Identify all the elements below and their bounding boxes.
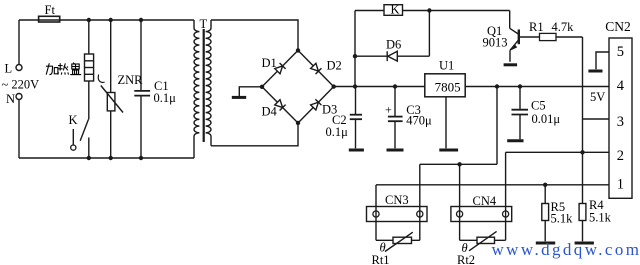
diode D3 <box>311 99 322 110</box>
wire: CN3 right pin drop <box>419 164 421 240</box>
wire: relay top line left <box>355 10 384 12</box>
node: bridge left vertex <box>260 85 264 89</box>
svg-text:0.1μ: 0.1μ <box>326 125 349 139</box>
node: bridge top vertex <box>296 48 300 52</box>
svg-text:0.01μ: 0.01μ <box>532 112 561 126</box>
wire: 5V distribution horizontal <box>420 163 497 165</box>
diode D6 <box>387 51 397 61</box>
svg-text:K: K <box>69 113 78 127</box>
svg-text:L: L <box>5 62 13 76</box>
svg-text:5: 5 <box>617 44 624 60</box>
wire: N terminal drop <box>18 100 20 159</box>
node: rail relay junction <box>353 84 357 88</box>
node CN4 right pin <box>503 211 509 217</box>
wire: Rt1 link <box>376 239 420 241</box>
svg-text:K: K <box>391 3 400 17</box>
node: relay line right junction <box>427 8 431 12</box>
transformer T core <box>203 29 205 142</box>
wire: 5V distribution vertical <box>496 87 498 165</box>
node: top wire C1 junction <box>139 18 143 22</box>
svg-text:5.1k: 5.1k <box>589 211 612 225</box>
wire: D6 line <box>355 55 429 57</box>
svg-text:N: N <box>6 92 15 106</box>
wire: Rt2 link <box>460 239 506 241</box>
regulator U1 box <box>425 74 465 97</box>
svg-text:0.1μ: 0.1μ <box>154 91 177 105</box>
node: top wire heater junction <box>87 18 91 22</box>
switch K button circle <box>71 145 76 150</box>
node: top wire ZNR junction <box>109 18 113 22</box>
ground bar (Q1 emitter) <box>504 63 517 66</box>
svg-text:9013: 9013 <box>483 36 508 50</box>
svg-text:D6: D6 <box>386 38 401 52</box>
ground bar (bridge) <box>232 96 246 99</box>
bridge edge top-right <box>298 50 334 86</box>
svg-text:4.7k: 4.7k <box>552 20 575 34</box>
svg-text:2: 2 <box>617 148 624 164</box>
node: bridge bottom vertex <box>296 121 300 125</box>
capacitor C3 <box>388 87 403 149</box>
node: pin2 control junction <box>580 150 584 154</box>
svg-text:5.1k: 5.1k <box>551 212 574 226</box>
svg-text:www.dgdqw.com: www.dgdqw.com <box>492 240 640 259</box>
node CN3 right pin <box>417 211 423 217</box>
wire: control vertical R1 to R4 <box>582 37 584 204</box>
ground bar (C2) <box>349 149 364 152</box>
wire: U1 ground stub <box>445 97 447 149</box>
wire: CN2 pin2 line <box>506 151 609 153</box>
svg-text:Ft: Ft <box>45 3 56 17</box>
svg-text:ZNR: ZNR <box>118 73 144 87</box>
bridge edge top-left <box>262 50 298 86</box>
svg-text:D2: D2 <box>327 59 342 73</box>
resistor R4 <box>579 204 586 242</box>
transistor Q1 <box>510 11 519 62</box>
resistor R5 <box>542 185 549 242</box>
wire: C1 branch lower <box>140 96 142 158</box>
wire: CN2 pin3 stub <box>583 118 610 120</box>
label 加热盘 (heating plate, drawn strokes) <box>46 63 81 75</box>
svg-text:+: + <box>385 103 392 117</box>
thermistor Rt1 <box>385 232 413 251</box>
wire: ZNR branch <box>110 20 112 158</box>
diode D1 <box>275 63 286 74</box>
svg-text:7805: 7805 <box>435 80 461 95</box>
svg-text:5V: 5V <box>590 90 605 104</box>
ground bar (C3) <box>387 149 404 152</box>
transformer T secondary <box>206 20 211 146</box>
wire: bottom horizontal (neutral) <box>19 157 194 159</box>
wire: bridge left vertex to ground <box>239 87 262 96</box>
diode D4 <box>275 100 286 111</box>
wire: CN3 left pin drop <box>375 185 377 241</box>
switch K button stub <box>72 129 74 145</box>
node CN3 left pin <box>373 211 379 217</box>
wire: Q1 base to R1 <box>520 36 540 38</box>
svg-text:D1: D1 <box>262 56 277 70</box>
ground bar (pin5) <box>588 70 602 73</box>
wire: CN4 right pin drop <box>505 152 507 240</box>
svg-text:D4: D4 <box>262 105 278 119</box>
wire: heater branch upper <box>88 20 90 54</box>
node N terminal circle <box>16 94 22 100</box>
wire: CN2 pin1 line <box>376 184 609 186</box>
relay coil K box <box>384 5 403 16</box>
connector CN4 box <box>451 207 512 222</box>
capacitor C1 <box>134 91 150 96</box>
varistor ZNR <box>98 75 123 113</box>
ground bar (C5) <box>507 139 523 142</box>
ground bar (R4) <box>575 242 594 245</box>
ground bar (U1) <box>439 149 458 152</box>
connector CN2 box <box>609 38 632 198</box>
node: 5V rail C5 junction <box>518 84 522 88</box>
svg-text:470μ: 470μ <box>406 113 432 127</box>
diode D2 <box>311 63 322 74</box>
node CN4 left pin <box>457 211 463 217</box>
wire: +9V rail bridge to U1 <box>334 86 425 88</box>
wire: secondary top lead <box>211 20 298 50</box>
transformer T primary <box>194 20 199 158</box>
wire: C1 branch upper <box>140 20 142 91</box>
svg-text:4: 4 <box>617 78 625 94</box>
fuse Ft <box>39 16 60 22</box>
svg-text:CN4: CN4 <box>473 194 497 208</box>
svg-text:~ 220V: ~ 220V <box>2 78 40 92</box>
svg-text:CN2: CN2 <box>605 19 631 34</box>
bridge edge bottom-right <box>298 87 334 123</box>
wire: D6 right vertical <box>428 11 430 57</box>
svg-text:R1: R1 <box>529 20 544 34</box>
wire: 5V rail U1 to CN2 pin4 <box>465 86 609 88</box>
node: bridge right vertex <box>332 84 336 88</box>
wire: CN4 left pin drop <box>459 164 461 240</box>
wire: relay branch vertical <box>354 11 356 87</box>
wire: mains top horizontal <box>19 19 194 21</box>
svg-text:1: 1 <box>617 177 624 193</box>
switch K blade <box>80 120 88 141</box>
wire: switch bottom terminal <box>88 138 90 159</box>
node: 5V rail sensor-supply junction <box>495 84 499 88</box>
wire: relay top line right <box>403 10 510 12</box>
resistor R1 <box>540 33 557 40</box>
node: bottom wire ZNR junction <box>109 156 113 160</box>
wire: R1 to vertical <box>556 36 583 38</box>
node: bottom wire C1 junction <box>139 156 143 160</box>
wire: L terminal drop <box>18 20 20 65</box>
node: pin1 R5 junction <box>543 183 547 187</box>
node: rail C3 junction <box>393 84 397 88</box>
svg-text:Rt1: Rt1 <box>372 253 390 265</box>
node L terminal circle <box>16 65 22 71</box>
svg-text:T: T <box>200 17 208 31</box>
svg-text:Rt2: Rt2 <box>457 253 475 265</box>
node: 5V line CN4 junction <box>457 162 461 166</box>
svg-text:C5: C5 <box>531 99 546 113</box>
svg-text:3: 3 <box>617 114 624 130</box>
connector CN3 box <box>367 207 428 222</box>
capacitor C5 <box>512 87 529 140</box>
wire: CN2 pin5 stub <box>596 52 609 69</box>
capacitor C2 <box>350 87 362 149</box>
bridge edge bottom-left <box>262 87 298 123</box>
wire: secondary bottom lead <box>211 123 298 146</box>
wire: heater to switch <box>88 81 90 120</box>
svg-text:U1: U1 <box>439 59 454 73</box>
node: D6 left junction <box>353 54 357 58</box>
node: bottom wire K junction <box>87 156 91 160</box>
heating plate element <box>85 54 94 81</box>
ground bar (R5) <box>536 242 555 245</box>
thermistor Rt2 <box>469 231 497 250</box>
svg-text:CN3: CN3 <box>385 193 409 207</box>
